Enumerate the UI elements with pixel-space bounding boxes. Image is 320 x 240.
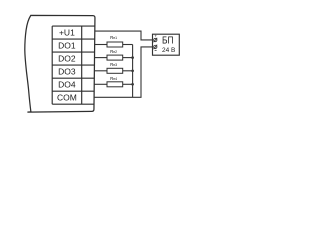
- svg-text:Rн4: Rн4: [110, 76, 117, 81]
- row line 1: [52, 38, 95, 40]
- table top border: [52, 25, 95, 27]
- wire +U1 to PSU plus terminal: [95, 31, 154, 40]
- junction dot bus/Rn3: [131, 69, 134, 72]
- table left border: [51, 26, 53, 104]
- svg-text:DO1: DO1: [58, 41, 76, 51]
- row line 4: [52, 77, 94, 79]
- row line 5: [52, 90, 94, 92]
- junction dot bus/Rn2: [131, 56, 134, 59]
- wire DO3 to resistor Rn3: [95, 70, 107, 72]
- label Rn1: [110, 35, 117, 40]
- terminal labels: [57, 28, 77, 103]
- resistor Rn4: [107, 82, 123, 87]
- row line 3: [52, 64, 94, 66]
- svg-text:Rн3: Rн3: [110, 62, 117, 67]
- svg-text:DO2: DO2: [58, 54, 76, 64]
- svg-text:DO4: DO4: [58, 80, 76, 90]
- label Rn2: [110, 49, 117, 54]
- svg-text:COM: COM: [57, 93, 77, 103]
- wire Rn2 right to bus: [123, 57, 133, 59]
- svg-text:24 В: 24 В: [162, 47, 176, 54]
- wire COM to PSU minus terminal: [94, 47, 153, 97]
- svg-text:+: +: [154, 33, 157, 38]
- row line 2: [52, 51, 94, 53]
- label Rn4: [110, 76, 117, 81]
- svg-text:+U1: +U1: [59, 28, 75, 38]
- device outline (instrument body fragment): [25, 15, 95, 112]
- svg-text:Rн2: Rн2: [110, 49, 117, 54]
- svg-text:Rн1: Rн1: [110, 35, 117, 40]
- table bottom border: [52, 103, 94, 105]
- minus sign: [155, 49, 157, 51]
- wire Rn1 right to bus: [123, 44, 133, 46]
- resistor Rn3: [107, 68, 123, 73]
- wire DO1 to resistor Rn1: [95, 44, 107, 46]
- junction dot bus/Rn4: [131, 83, 134, 86]
- bus vertical wire collecting resistor outputs: [132, 45, 134, 98]
- svg-text:БП: БП: [162, 35, 174, 46]
- wire Rn3 right to bus: [123, 70, 133, 72]
- label Rn3: [110, 62, 117, 67]
- wire Rn4 right to bus: [123, 83, 133, 85]
- resistor Rn1: [107, 42, 123, 47]
- terminal block table: [52, 26, 95, 104]
- PSU plus terminal (connector circle): [154, 38, 158, 42]
- PSU minus terminal (connector circle): [154, 45, 158, 49]
- svg-text:DO3: DO3: [58, 67, 76, 77]
- wire DO4 to resistor Rn4: [95, 83, 108, 85]
- power supply BP 24V box: [153, 34, 180, 55]
- resistor Rn2: [107, 55, 123, 60]
- table column divider: [81, 26, 83, 104]
- wire DO2 to resistor Rn2: [95, 57, 107, 59]
